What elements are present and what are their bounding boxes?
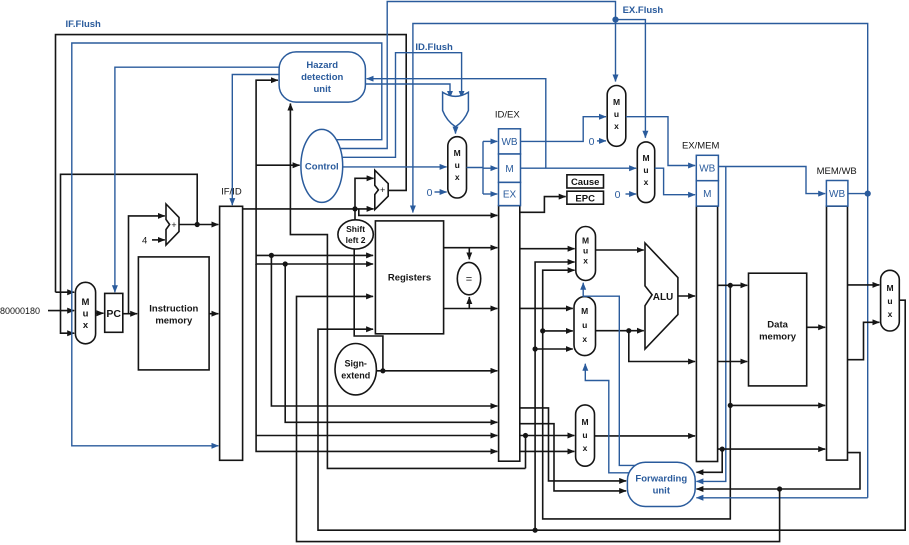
wire rt number down to forwarding unit — [520, 408, 626, 481]
svg-text:M: M — [505, 164, 513, 175]
svg-text:detection: detection — [301, 72, 343, 83]
mux M6 ALU operand B — [574, 297, 596, 356]
svg-text:PC: PC — [106, 308, 121, 320]
mux M8 write back mux — [881, 270, 900, 331]
wire 80000180 to PC mux — [48, 310, 74, 312]
wire into shift left 2 — [354, 209, 356, 220]
node junction rt wrap — [283, 261, 288, 266]
wire to branch adder lower input — [355, 208, 374, 210]
node junction WB value to mux B — [533, 346, 538, 351]
mux M5 ALU operand A — [576, 227, 596, 281]
svg-text:0: 0 — [589, 136, 595, 148]
register ID/EX WB field — [499, 129, 521, 154]
register MEM/WB WB field — [826, 181, 848, 207]
svg-text:u: u — [582, 430, 587, 440]
svg-text:unit: unit — [313, 84, 331, 95]
svg-text:M: M — [582, 236, 589, 246]
control unit — [301, 129, 343, 202]
svg-text:Registers: Registers — [388, 273, 431, 284]
wire second input to store mux — [520, 450, 575, 452]
wire EX/MEM store data to data memory — [718, 361, 748, 363]
forwarding unit — [627, 462, 695, 506]
svg-text:M: M — [82, 297, 90, 308]
svg-text:M: M — [581, 417, 588, 427]
svg-text:x: x — [614, 121, 619, 131]
svg-text:x: x — [455, 172, 460, 182]
wire rt riser down to immediate wrap line — [525, 436, 527, 469]
data memory — [749, 273, 807, 386]
registers block — [375, 221, 443, 334]
svg-text:x: x — [644, 177, 649, 187]
node junction rt number — [523, 433, 528, 438]
wire PC+4 value to ID/EX — [359, 209, 498, 216]
node junction sign extend out — [380, 368, 385, 373]
wire 0 into M flush mux — [626, 193, 637, 195]
wire IF.Flush from control to IF/ID — [72, 43, 382, 446]
wire WB value feedback riser to muxes — [535, 262, 575, 530]
wire ID/EX read2 to forward mux B — [520, 307, 573, 309]
svg-text:u: u — [83, 309, 89, 320]
wire PCWrite from hazard unit to PC — [115, 67, 279, 292]
wire store data to EX/MEM — [629, 331, 695, 362]
wire PC mux out — [96, 312, 104, 314]
svg-text:Shift: Shift — [346, 224, 365, 234]
wire instruction memory out — [209, 313, 218, 315]
wire ALU result to MEM/WB — [730, 404, 825, 406]
shift left 2 unit — [338, 220, 373, 249]
svg-text:memory: memory — [759, 332, 797, 343]
svg-text:WB: WB — [699, 164, 715, 175]
node junction EX.Flush — [612, 17, 618, 23]
wire PC out up to adder — [129, 216, 165, 314]
wire EX/MEM RegWrite down to forwarding unit — [696, 167, 725, 482]
wire adder out to IF/ID — [179, 224, 218, 226]
wire sign extend up through shift left 2 — [354, 249, 383, 371]
svg-text:M: M — [703, 189, 711, 200]
node junction PC+4 — [195, 222, 200, 227]
wire MEM/WB rd to forwarding unit — [696, 453, 860, 489]
adder A1 PC+4 — [166, 204, 179, 245]
wire PC+4 feedback to PC mux — [61, 174, 198, 333]
node junction rs wrap — [269, 253, 274, 258]
wire MEM/WB read data to write mux — [848, 284, 880, 286]
wire M flush mux out to EX/MEM M — [655, 168, 695, 195]
mux M4 EX.Flush M mux — [637, 142, 654, 203]
svg-text:EPC: EPC — [575, 194, 595, 205]
wire ALU result feedback riser to muxes — [543, 270, 731, 519]
wire ForwardB select — [585, 364, 628, 473]
wire data memory out to MEM/WB — [807, 326, 826, 328]
wire RegWrite net top to Registers and down to forwarding unit — [413, 24, 868, 498]
register ID/EX — [499, 206, 520, 462]
svg-text:ALU: ALU — [653, 292, 674, 303]
wire EX/MEM WB out to MEM/WB WB — [718, 167, 825, 194]
svg-text:M: M — [886, 283, 893, 293]
node junction write register number — [777, 486, 782, 491]
wire ID/EX WB to flush mux — [521, 117, 607, 142]
node junction ALU result to MEM/WB — [728, 403, 733, 408]
svg-text:IF.Flush: IF.Flush — [66, 19, 102, 30]
wire instruction bus from IF/ID — [243, 208, 355, 210]
svg-text:x: x — [582, 334, 587, 344]
wire rd field branch to ID/EX — [256, 435, 497, 437]
register EX/MEM — [696, 206, 717, 461]
node junction EX/MEM rd — [720, 447, 725, 452]
svg-text:M: M — [454, 148, 461, 158]
svg-text:Control: Control — [305, 162, 339, 173]
svg-text:u: u — [455, 160, 460, 170]
wire branch-target top loop to PC mux — [56, 35, 407, 293]
node junction instruction/PC+4 — [352, 206, 357, 211]
svg-text:+: + — [380, 185, 385, 195]
register PC — [105, 293, 123, 332]
wire sign extend out to ID/EX — [376, 370, 497, 372]
svg-text:EX.Flush: EX.Flush — [623, 5, 664, 16]
node junction WB value bottom — [533, 528, 538, 533]
svg-text:Data: Data — [767, 320, 788, 331]
svg-text:EX: EX — [503, 190, 517, 201]
svg-text:x: x — [83, 320, 89, 331]
wire read register 2 — [256, 209, 373, 264]
wire hazard stall to OR gate — [365, 84, 450, 98]
wire ID/EX rt down-wrap to hazard detection unit — [290, 104, 525, 469]
wire WB value to mux B — [535, 348, 573, 350]
svg-text:80000180: 80000180 — [0, 306, 40, 316]
wire MemRead back to hazard detection unit — [367, 79, 546, 169]
svg-text:Forwarding: Forwarding — [635, 474, 687, 485]
wire EX.Flush from control to mux over EX/MEM — [340, 2, 615, 149]
wire 0 into WB flush mux — [597, 140, 606, 142]
svg-text:u: u — [643, 165, 648, 175]
wire read data 1 into comparator — [468, 248, 470, 260]
svg-text:Instruction: Instruction — [149, 304, 198, 315]
svg-text:WB: WB — [501, 137, 517, 148]
wire ID/EX to EPC — [520, 197, 566, 213]
svg-text:x: x — [583, 443, 588, 453]
wire to branch adder upper input — [355, 178, 374, 209]
svg-text:M: M — [613, 97, 620, 107]
svg-text:M: M — [642, 153, 649, 163]
wire mux B out to ALU — [596, 330, 644, 332]
wire ID/EX read1 to forward mux A — [520, 248, 575, 250]
svg-text:WB: WB — [829, 189, 845, 200]
wire read data 2 into comparator — [468, 297, 470, 309]
svg-text:x: x — [888, 309, 893, 319]
wire ALU result to EX/MEM — [678, 295, 695, 297]
wire IF/ID write from hazard unit — [232, 75, 279, 206]
svg-text:M: M — [581, 306, 588, 316]
wire 0 into bubble mux — [435, 191, 447, 193]
wire write mux out loop to Registers write data — [318, 300, 905, 530]
register MEM/WB — [827, 206, 848, 460]
register EPC — [567, 191, 604, 204]
svg-text:left 2: left 2 — [346, 235, 366, 245]
svg-text:u: u — [614, 109, 619, 119]
mux M7 store-data forward mux — [576, 405, 595, 466]
svg-text:memory: memory — [155, 316, 193, 327]
svg-text:unit: unit — [653, 486, 671, 497]
wire PC out to instruction memory — [123, 313, 137, 315]
svg-text:Cause: Cause — [571, 177, 600, 188]
register ID/EX EX field — [499, 182, 521, 205]
wire rt wrap to ID/EX — [285, 264, 497, 422]
sign extend unit — [335, 344, 376, 395]
wire ForwardA select — [583, 283, 636, 466]
comparator equal — [457, 262, 480, 294]
svg-text:+: + — [171, 220, 176, 230]
wire instruction to Control — [256, 164, 300, 166]
wire read register 1 — [256, 254, 373, 256]
svg-text:4: 4 — [142, 235, 147, 246]
wire store mux out to EX/MEM — [595, 435, 696, 437]
wire control signals to bubble mux — [343, 166, 447, 168]
mux M1 PC source mux — [75, 282, 95, 344]
node junction store data — [626, 328, 631, 333]
svg-text:u: u — [582, 320, 587, 330]
mux M3 EX.Flush WB mux — [607, 86, 626, 147]
svg-text:ID/EX: ID/EX — [495, 110, 520, 121]
or-gate ID flush — [443, 92, 469, 127]
wire RegWrite to forwarding unit — [696, 497, 867, 499]
register EX/MEM M field — [696, 181, 718, 206]
wire read data 2 to ID/EX — [444, 308, 498, 310]
wire 4 to adder — [152, 239, 165, 241]
node junction ALU result — [728, 283, 733, 288]
register Cause — [567, 175, 604, 188]
svg-text:u: u — [887, 296, 892, 306]
wire MEM/WB WB out — [848, 193, 868, 195]
wire MEM/WB ALU result to write mux — [848, 322, 880, 359]
wire bubble mux out to ID/EX control fields — [467, 167, 484, 169]
wire mux A out to ALU — [596, 249, 644, 251]
wire ALU feedback to mux B — [543, 330, 573, 332]
hazard detection unit — [279, 52, 365, 102]
svg-text:ID.Flush: ID.Flush — [415, 42, 453, 53]
wire rs number down to forwarding unit — [520, 424, 626, 491]
wire read data 1 to ID/EX — [444, 247, 498, 249]
wire instruction up to hazard detection unit — [256, 80, 278, 209]
svg-text:u: u — [583, 246, 588, 256]
svg-text:=: = — [466, 273, 472, 285]
wire ID/EX M to M flush mux — [521, 167, 637, 169]
register EX/MEM WB field — [696, 155, 718, 180]
svg-text:0: 0 — [427, 187, 433, 199]
mux M2 control bubble mux — [448, 137, 467, 198]
svg-text:MEM/WB: MEM/WB — [817, 166, 857, 177]
svg-text:IF/ID: IF/ID — [221, 187, 242, 198]
instruction memory — [138, 257, 209, 370]
wire write register number to Registers — [297, 296, 780, 541]
svg-text:EX/MEM: EX/MEM — [682, 141, 720, 152]
wire EX/MEM rd to forwarding unit — [696, 449, 722, 472]
ALU — [645, 243, 678, 349]
wire OR gate to control mux select — [455, 127, 457, 134]
wire EX/MEM ALU result to data memory — [718, 284, 748, 286]
wire rt field to ID/EX and store mux — [256, 264, 497, 451]
branch adder A2 — [375, 170, 388, 209]
node junction ALU feedback to mux B — [540, 328, 545, 333]
svg-text:extend: extend — [341, 371, 370, 381]
node junction RegWrite — [865, 191, 871, 197]
register ID/EX M field — [499, 154, 521, 182]
wire rs wrap to ID/EX — [271, 255, 497, 406]
wire ID.Flush from control to OR gate — [342, 53, 462, 158]
svg-text:Sign-: Sign- — [344, 359, 367, 369]
svg-text:x: x — [583, 256, 588, 266]
wire EX.Flush branch to second mux — [616, 20, 646, 138]
svg-text:Hazard: Hazard — [306, 60, 338, 71]
register IF/ID — [220, 206, 243, 460]
wire WB flush mux out to EX/MEM WB — [626, 117, 695, 166]
wire ID/EX rt value to store mux — [520, 435, 575, 437]
wire EX/MEM rd to MEM/WB — [718, 448, 826, 450]
svg-text:0: 0 — [615, 189, 621, 201]
